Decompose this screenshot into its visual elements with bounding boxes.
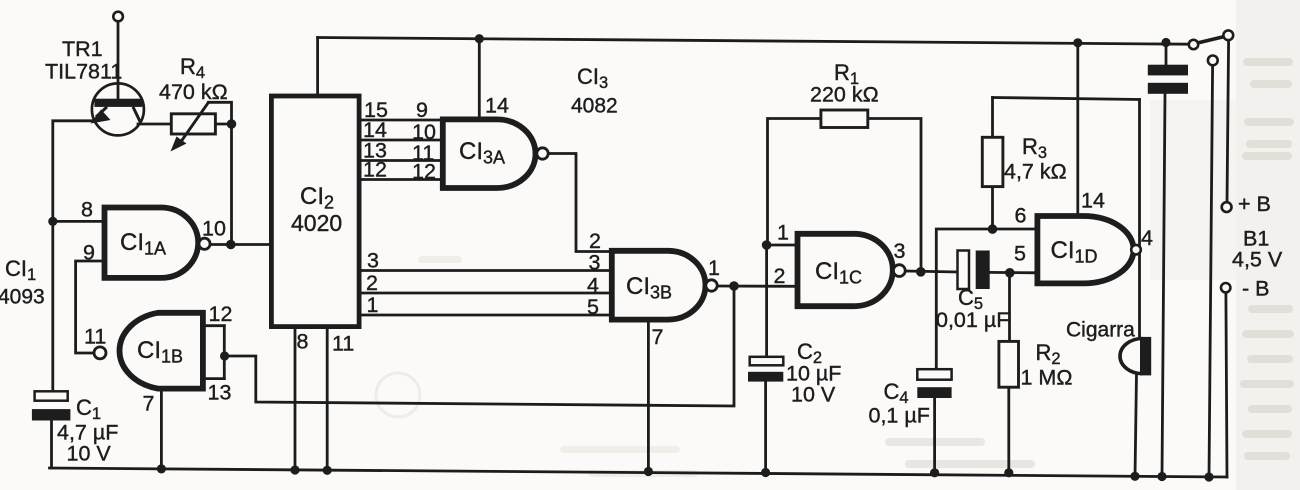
- node rail / switch C line: [1204, 472, 1213, 481]
- wire CI1D output net vertical: [1138, 100, 1141, 339]
- svg-text:Cigarra: Cigarra: [1066, 319, 1135, 342]
- node CI1B tied inputs: [220, 351, 229, 360]
- svg-text:TR1: TR1: [62, 37, 103, 61]
- svg-text:2: 2: [589, 229, 601, 253]
- svg-text:0,01 µF: 0,01 µF: [936, 308, 1009, 332]
- wire TR1 collector to R4: [138, 123, 171, 126]
- svg-text:2: 2: [366, 271, 378, 295]
- wire R2 top lead: [1008, 273, 1011, 342]
- wire CI1D pin14 power lead: [1076, 43, 1079, 214]
- wire CI1B pins 12-13 tie bar: [223, 326, 226, 379]
- wire switch B to +B terminal: [1227, 40, 1229, 202]
- svg-text:14: 14: [1081, 189, 1105, 213]
- bottom 0V rail wire: [50, 468, 1228, 477]
- node rail / CI3B pin7: [644, 467, 653, 476]
- svg-text:10 V: 10 V: [791, 383, 836, 407]
- gate CI3A (4-input 4082): [443, 119, 536, 188]
- switch lever: [1198, 37, 1224, 43]
- svg-text:4020: 4020: [291, 210, 342, 236]
- svg-text:12: 12: [209, 302, 233, 326]
- CI1C output bubble: [893, 265, 905, 277]
- wire R4 right terminal: [215, 123, 231, 126]
- wire R2 bottom lead: [1007, 387, 1010, 473]
- svg-text:9: 9: [416, 98, 428, 122]
- svg-text:8: 8: [297, 330, 309, 354]
- svg-text:10 V: 10 V: [67, 442, 112, 466]
- wire CI1C output to C5: [905, 271, 957, 272]
- svg-text:3: 3: [894, 239, 906, 263]
- svg-text:3: 3: [589, 251, 601, 275]
- svg-text:4: 4: [1141, 226, 1153, 250]
- terminal +B: [1222, 202, 1232, 212]
- CI3A output bubble: [537, 148, 548, 159]
- op-amp-style gate CI1A (NAND 4093): [105, 208, 199, 278]
- svg-text:5: 5: [1014, 242, 1026, 266]
- gate CI1B (NAND 4093, mirrored): [119, 313, 202, 389]
- node R4 right terminal: [227, 119, 237, 129]
- node rail / C4: [930, 468, 939, 477]
- capacitor C4 0.1uF: [917, 369, 951, 398]
- capacitor C2 10uF electrolytic: [748, 357, 783, 382]
- resistor R1 220k: [821, 110, 868, 128]
- node R3 / C4 / CI1D input6: [988, 224, 998, 234]
- node C5 / R2 / CI1D input5: [1005, 268, 1015, 278]
- svg-text:220 kΩ: 220 kΩ: [810, 83, 879, 107]
- wire CI1B pin7 ground lead: [160, 391, 163, 469]
- svg-text:7: 7: [652, 325, 664, 349]
- wire R4 node down to CI1A output: [230, 124, 233, 245]
- IC CI2 4020 body: [271, 96, 359, 327]
- svg-text:14: 14: [485, 94, 509, 118]
- svg-text:8: 8: [81, 198, 93, 222]
- wire R4 wiper tie: [209, 102, 232, 124]
- svg-text:1: 1: [708, 256, 720, 280]
- wire cigarra bottom lead: [1135, 374, 1137, 477]
- svg-text:4,5 V: 4,5 V: [1232, 248, 1283, 272]
- svg-text:10: 10: [202, 217, 226, 241]
- wire R3 to output-4 net: [993, 98, 1140, 100]
- wire battery bottom lead: [1162, 94, 1165, 477]
- svg-text:0,1 µF: 0,1 µF: [869, 404, 930, 428]
- node rail / CI2 pin11: [323, 466, 332, 475]
- resistor R2 1M: [999, 341, 1019, 387]
- svg-text:470 kΩ: 470 kΩ: [159, 80, 228, 104]
- svg-text:5: 5: [587, 295, 599, 319]
- switch contact C: [1208, 56, 1218, 66]
- node rail / battery: [1157, 472, 1166, 481]
- wire R1 feedback loop right: [868, 119, 921, 273]
- resistor R3 4.7k: [982, 137, 1003, 186]
- node rail / C2: [761, 468, 770, 477]
- svg-text:7: 7: [143, 392, 155, 416]
- svg-text:4093: 4093: [0, 286, 45, 309]
- wire switch C to 0V rail: [1209, 65, 1213, 477]
- wire CI3B pin7 ground lead: [647, 322, 650, 472]
- wire R3 top lead: [991, 98, 994, 138]
- svg-text:+ B: + B: [1238, 192, 1271, 216]
- node TR1 emitter / CI1A input8: [48, 217, 57, 226]
- svg-text:TIL7811: TIL7811: [45, 60, 122, 84]
- node top rail / CI3A pin14: [475, 34, 484, 43]
- wire R3 bottom lead: [991, 187, 994, 230]
- svg-text:12: 12: [412, 160, 436, 184]
- wire CI1B tie to feedback run: [224, 286, 734, 406]
- wire CI2 pin15 to CI3A pin9: [362, 119, 441, 122]
- wire battery top lead: [1165, 43, 1168, 65]
- svg-text:6: 6: [1015, 204, 1027, 228]
- terminal -B: [1221, 283, 1230, 292]
- gate CI3B (4-input 4082): [612, 251, 706, 320]
- svg-text:- B: - B: [1242, 277, 1269, 301]
- wire CI2 pin3 to CI3B pin3: [362, 269, 610, 272]
- node CI1A output / R4 branch: [226, 240, 236, 250]
- svg-text:13: 13: [208, 381, 232, 405]
- wire CI1B pin13 stub: [206, 377, 225, 380]
- svg-text:1: 1: [777, 221, 789, 245]
- node rail / CI2 pin8: [290, 465, 299, 474]
- wire C2 bottom lead: [764, 382, 767, 473]
- svg-text:3: 3: [367, 249, 379, 273]
- wire CI1A input 8: [53, 220, 102, 223]
- wire CI2 pin1 to CI3B pin5: [362, 314, 610, 317]
- wire CI2 top lead: [316, 38, 319, 95]
- wire C1 bottom lead: [50, 421, 53, 469]
- svg-text:1: 1: [367, 293, 379, 317]
- node CI3B output: [729, 281, 739, 291]
- wire CI1A output to CI2: [211, 243, 269, 246]
- cigarra buzzer: [1120, 337, 1151, 376]
- CI1A output bubble: [199, 238, 210, 249]
- gate CI1D (NAND 4093): [1037, 216, 1133, 283]
- wire -B terminal to 0V rail corner: [1226, 293, 1227, 478]
- svg-text:4082: 4082: [571, 95, 618, 118]
- svg-text:4,7 kΩ: 4,7 kΩ: [1004, 160, 1067, 184]
- switch contact A: [1189, 40, 1198, 49]
- node R1 / CI1C input1 / C2: [762, 240, 772, 250]
- transistor TR1 (phototransistor TIL7811): [91, 12, 144, 136]
- resistor R4 470k trimpot: [171, 102, 216, 151]
- node CI1C output / R1 / C5: [916, 267, 926, 277]
- svg-text:12: 12: [363, 158, 387, 182]
- svg-text:4: 4: [587, 274, 599, 298]
- node rail / cigarra: [1130, 472, 1139, 481]
- wire TR1 collector lead: [117, 21, 120, 100]
- switch contact B: [1223, 30, 1233, 40]
- wire CI3A pin14 power lead: [478, 39, 481, 117]
- wire CI2 pin12 to CI3A pin12: [362, 178, 441, 181]
- wire C4 bottom lead: [933, 398, 936, 473]
- top +V rail wire: [318, 38, 1189, 45]
- svg-text:11: 11: [332, 332, 354, 356]
- wire CI1B pin12 stub: [206, 324, 225, 327]
- CI1D output bubble: [1131, 245, 1141, 255]
- capacitor C5 0.01uF: [958, 251, 990, 290]
- capacitor C1 4.7uF electrolytic: [32, 391, 71, 420]
- battery B1 bars: [1148, 65, 1188, 94]
- node top rail / battery: [1161, 38, 1170, 47]
- svg-text:1 MΩ: 1 MΩ: [1021, 366, 1073, 390]
- wire CI2 pin11 ground lead: [326, 329, 329, 470]
- wire TR1 emitter to left rail: [53, 121, 92, 392]
- wire CI2 pin13 to CI3A pin11: [362, 159, 441, 162]
- wire CI3A output to CI3B input2: [548, 154, 609, 252]
- node rail / R2: [1004, 468, 1013, 477]
- gate CI1C (NAND 4093): [798, 234, 893, 306]
- svg-text:11: 11: [84, 325, 106, 349]
- node top rail / CI1D pin14: [1073, 38, 1082, 47]
- svg-text:9: 9: [83, 241, 95, 265]
- wire CI1D input6 run to C4: [936, 229, 1034, 369]
- wire CI2 pin2 to CI3B pin4: [362, 292, 610, 295]
- wire R1 feedback loop left: [768, 119, 821, 246]
- CI3B output bubble: [706, 280, 717, 291]
- wire C5 to CI1D input5: [990, 271, 1035, 274]
- node rail / CI1B pin7: [157, 464, 166, 473]
- wire CI2 pin14 to CI3A pin10: [362, 139, 441, 142]
- wire CI2 pin8 ground lead: [294, 329, 297, 470]
- wire node1 to CI1C input1: [767, 244, 795, 247]
- wire C2 top lead: [765, 245, 768, 357]
- svg-text:2: 2: [774, 264, 786, 288]
- wire CI1B output to CI1A input 9: [76, 261, 102, 353]
- CI1B output bubble: [94, 347, 106, 359]
- wire CI3B output to CI1C input2: [717, 285, 794, 288]
